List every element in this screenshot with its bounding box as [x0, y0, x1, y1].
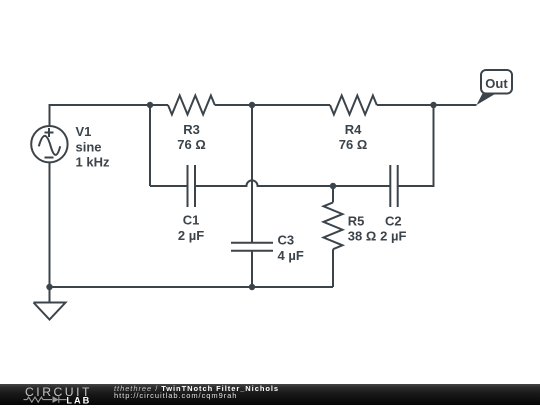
wire bottom rail: [50, 286, 334, 288]
svg-text:C3: C3: [278, 233, 295, 248]
wire node A down: [149, 105, 151, 186]
V1 plus sign: [45, 128, 54, 137]
svg-text:R5: R5: [348, 213, 365, 228]
capacitor C3: [231, 243, 273, 251]
V1 minus sign: [45, 157, 54, 159]
label C2: [380, 213, 406, 243]
svg-text:38 Ω: 38 Ω: [348, 229, 377, 244]
label R4: [339, 122, 368, 152]
svg-text:C2: C2: [385, 213, 402, 228]
logo resistor zigzag: [24, 396, 67, 402]
svg-text:sine: sine: [76, 139, 102, 154]
wire C2 right up to top: [398, 105, 434, 186]
svg-text:2 µF: 2 µF: [178, 228, 204, 243]
node C3 bottom dot: [249, 284, 255, 290]
svg-text:R3: R3: [183, 122, 200, 137]
svg-text:76 Ω: 76 Ω: [177, 137, 206, 152]
capacitor C1: [188, 165, 196, 207]
svg-text:Out: Out: [485, 76, 508, 91]
svg-text:LAB: LAB: [66, 395, 91, 405]
wire R3 to R4: [215, 104, 330, 106]
svg-text:4 µF: 4 µF: [278, 248, 304, 263]
svg-text:C1: C1: [183, 213, 200, 228]
footer line 2: [114, 392, 237, 400]
label R5: [348, 213, 377, 243]
wire R5 bottom lead: [332, 249, 334, 287]
voltage source V1: [31, 126, 67, 162]
svg-text:76 Ω: 76 Ω: [339, 137, 368, 152]
resistor R3: [168, 96, 215, 115]
node out dot: [430, 102, 436, 108]
resistor R5: [324, 202, 343, 249]
label C1: [178, 213, 204, 243]
wire R5 top lead: [332, 186, 334, 202]
resistor R4: [330, 96, 377, 115]
wire C1 to R5 junction with hop over vertical: [195, 180, 390, 186]
wire V1 bottom to ground node: [49, 162, 51, 287]
svg-text:2 µF: 2 µF: [380, 229, 406, 244]
node ground dot: [46, 284, 52, 290]
wire R4 to Out: [377, 104, 477, 106]
wire node B down to C3: [251, 105, 253, 243]
node R5 top dot: [330, 183, 336, 189]
label V1: [76, 124, 110, 170]
capacitor C2: [390, 165, 397, 207]
label C3: [278, 233, 304, 263]
node junction dots: [46, 102, 436, 290]
label R3: [177, 122, 206, 152]
logo CircuitLab: [20, 384, 120, 405]
V1 sine waveform: [39, 136, 60, 155]
node B dot: [249, 102, 255, 108]
footer line 1: [114, 385, 279, 393]
wire top from V1 to R3: [50, 105, 169, 127]
svg-text:V1: V1: [76, 124, 92, 139]
ground: [34, 287, 66, 320]
node A dot: [147, 102, 153, 108]
flag Out: [477, 70, 513, 105]
wire C3 to bottom rail: [251, 251, 253, 287]
svg-text:R4: R4: [345, 122, 362, 137]
wire node A to C1: [150, 185, 188, 187]
footer bar: [0, 384, 540, 405]
svg-text:1 kHz: 1 kHz: [76, 155, 110, 170]
logo diode symbol: [53, 396, 59, 403]
